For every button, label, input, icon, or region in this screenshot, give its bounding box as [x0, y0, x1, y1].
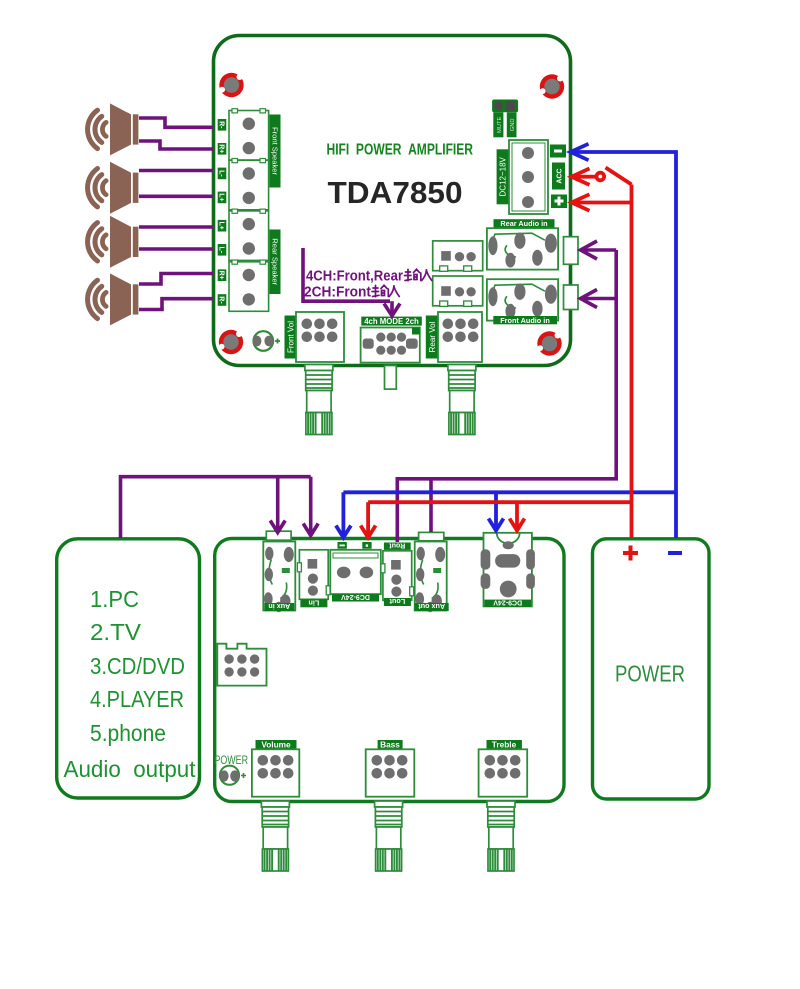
- svg-text:Front Vol: Front Vol: [287, 321, 296, 353]
- label Front Vol: [285, 316, 298, 359]
- wire SP1 R+: [139, 141, 213, 149]
- audio jack Aux in: [263, 542, 295, 613]
- label Front Speaker: [270, 115, 281, 188]
- wire SP3 L+: [139, 225, 213, 229]
- minus terminal symbol: [668, 551, 682, 555]
- arrow into ACC: [572, 169, 590, 185]
- wire purple rear audio net: [397, 241, 616, 542]
- svg-text:DC9-24V: DC9-24V: [341, 593, 370, 600]
- amplifier PCB outline: [214, 36, 571, 366]
- MUTE/GND jumper header: [492, 100, 518, 138]
- power terminal block DC12-18V: [509, 140, 548, 214]
- connector Lin: [297, 550, 330, 600]
- wire SP4 R+: [139, 274, 213, 285]
- wire purple audio source net: [121, 477, 311, 538]
- svg-text:R-: R-: [218, 121, 225, 129]
- trunk down: [397, 250, 616, 542]
- header connector audio out: [217, 644, 266, 686]
- svg-text:Lin: Lin: [309, 598, 320, 607]
- speaker terminal block 2: [229, 159, 269, 210]
- mounting hole top-left: [219, 73, 243, 97]
- svg-text:Front Speaker: Front Speaker: [270, 127, 279, 176]
- label DC9-24V (barrel): [485, 599, 532, 608]
- potentiometer Rear Vol shaft: [448, 365, 476, 435]
- wire SP2 L+: [139, 195, 213, 199]
- switch contact: [597, 173, 605, 181]
- svg-text:Rear Speaker: Rear Speaker: [270, 238, 279, 285]
- svg-text:Aux in: Aux in: [268, 602, 290, 611]
- label Lout: [384, 597, 411, 606]
- svg-text:Aux out: Aux out: [418, 602, 445, 611]
- svg-text:L+: L+: [218, 193, 225, 201]
- mode switch body: [361, 328, 420, 363]
- potentiometer Bass body: [366, 749, 415, 796]
- connector Lout: [381, 551, 414, 601]
- mode switch lever tab: [385, 366, 397, 390]
- power terminal block DC9-24V: [330, 550, 381, 594]
- label Aux out: [415, 602, 449, 611]
- svg-text:Rear Audio in: Rear Audio in: [500, 219, 547, 228]
- svg-text:POWER: POWER: [615, 661, 685, 687]
- label Volume: [256, 740, 297, 750]
- svg-text:HIFI POWER AMPLIFIER: HIFI POWER AMPLIFIER: [327, 142, 474, 159]
- speaker SP2: [88, 162, 139, 214]
- audio jack Rear Audio in: [487, 228, 558, 269]
- svg-text:Volume: Volume: [261, 740, 291, 750]
- label Rout: [384, 541, 411, 550]
- text 4CH:Front,Rear input: [306, 269, 432, 285]
- label Aux in: [264, 602, 294, 611]
- svg-text:R+: R+: [218, 271, 225, 280]
- svg-text:1.PC: 1.PC: [90, 586, 139, 612]
- mounting hole bottom-right: [537, 331, 561, 355]
- label Lin: [300, 598, 327, 607]
- wire purple callout arrow: [384, 301, 400, 316]
- potentiometer Rear Vol body: [438, 312, 482, 362]
- header connector J1: [433, 241, 483, 271]
- svg-text:MUTE: MUTE: [497, 116, 503, 133]
- terminal tab plus: [362, 542, 371, 549]
- svg-text:Rout: Rout: [389, 541, 406, 548]
- label Bass: [378, 740, 403, 750]
- mounting hole top-right: [540, 74, 564, 98]
- svg-text:ACC: ACC: [556, 168, 563, 183]
- wire SP2 L-: [139, 169, 213, 173]
- potentiometer Treble shaft: [487, 801, 515, 871]
- svg-text:2CH:Front: 2CH:Front: [304, 285, 371, 301]
- label Front Audio in: [493, 316, 557, 325]
- label Rear Audio in: [494, 219, 555, 228]
- terminal tab minus: [338, 542, 347, 549]
- DC barrel jack DC9-24V: [481, 533, 535, 607]
- wire red battery plus net: [361, 168, 632, 539]
- svg-text:DC12~18V: DC12~18V: [499, 156, 508, 196]
- potentiometer Front Vol shaft: [305, 365, 333, 435]
- label Treble: [487, 740, 522, 750]
- svg-text:Lout: Lout: [389, 597, 405, 606]
- wire purple branch to Aux in: [270, 477, 285, 533]
- branch to Aux out: [429, 479, 433, 532]
- svg-text:3.CD/DVD: 3.CD/DVD: [90, 653, 185, 679]
- text 2CH:Front input: [304, 285, 399, 301]
- wire SP1 R-: [139, 118, 213, 127]
- svg-text:Rear Vol: Rear Vol: [428, 321, 437, 352]
- svg-text:L-: L-: [218, 170, 225, 177]
- arrow into plus: [572, 194, 590, 210]
- header connector J2: [433, 276, 483, 306]
- speaker terminal block 4: [229, 260, 269, 311]
- potentiometer Front Vol body: [296, 312, 344, 362]
- svg-text:DC9-24V: DC9-24V: [493, 599, 522, 606]
- speaker terminal block 3: [229, 209, 269, 260]
- label DC9-24V: [332, 593, 379, 602]
- potentiometer Treble body: [479, 749, 528, 796]
- Aux in tab: [266, 531, 291, 540]
- audio source device box: [57, 539, 200, 798]
- svg-text:Audio output: Audio output: [64, 756, 197, 782]
- LED D1: [253, 331, 280, 351]
- svg-text:L+: L+: [218, 222, 225, 230]
- svg-text:Front Audio in: Front Audio in: [500, 316, 550, 325]
- label ACC: [552, 163, 565, 190]
- arrow into Rear Audio in: [581, 241, 598, 259]
- speaker SP4: [88, 273, 139, 325]
- svg-text:GND: GND: [510, 118, 516, 131]
- speaker SP3: [88, 216, 139, 268]
- LED power: [220, 766, 246, 785]
- svg-text:Treble: Treble: [492, 740, 517, 750]
- speaker terminal block 1: [229, 109, 269, 160]
- svg-text:TDA7850: TDA7850: [328, 175, 463, 210]
- label Rear Speaker: [270, 230, 281, 295]
- label Rear Vol: [426, 316, 439, 359]
- speaker SP1: [88, 103, 139, 155]
- wire SP4 R-: [139, 299, 213, 310]
- power supply box: [593, 539, 710, 799]
- potentiometer Bass shaft: [375, 801, 403, 871]
- speaker terminal pin labels R- R+ L- L+ L+ L- R+ R-: [218, 119, 227, 306]
- terminal tab minus: [550, 145, 566, 158]
- jack socket tab rear: [564, 237, 579, 265]
- jack socket tab front: [564, 285, 579, 310]
- label 4ch MODE 2ch: [361, 317, 422, 326]
- audio jack Front Audio in: [487, 279, 558, 320]
- svg-text:Bass: Bass: [380, 740, 400, 750]
- arrow into Front Audio in: [581, 290, 598, 308]
- svg-text:R+: R+: [218, 144, 225, 153]
- svg-text:R-: R-: [218, 296, 225, 304]
- wire SP3 L-: [139, 247, 213, 251]
- mounting hole bottom-left: [219, 330, 243, 354]
- svg-text:5.phone: 5.phone: [90, 720, 166, 746]
- Aux out tab: [419, 532, 444, 540]
- terminal tab plus: [551, 195, 567, 209]
- svg-text:4CH:Front,Rear: 4CH:Front,Rear: [306, 269, 403, 285]
- preamp PCB outline: [215, 539, 564, 802]
- label DC12~18V: [497, 149, 509, 204]
- wire purple branch to Lin: [303, 477, 318, 536]
- svg-text:L-: L-: [218, 246, 225, 253]
- potentiometer Volume shaft: [261, 801, 289, 871]
- audio jack Aux out: [415, 542, 447, 613]
- potentiometer Volume body: [252, 749, 299, 796]
- wire purple callout 4CH/2CH: [303, 248, 390, 301]
- wire blue battery minus net: [336, 144, 676, 538]
- svg-text:4.PLAYER: 4.PLAYER: [90, 686, 184, 712]
- switch lever: [606, 168, 632, 185]
- plus terminal symbol: [623, 546, 638, 561]
- svg-text:2.TV: 2.TV: [90, 619, 142, 645]
